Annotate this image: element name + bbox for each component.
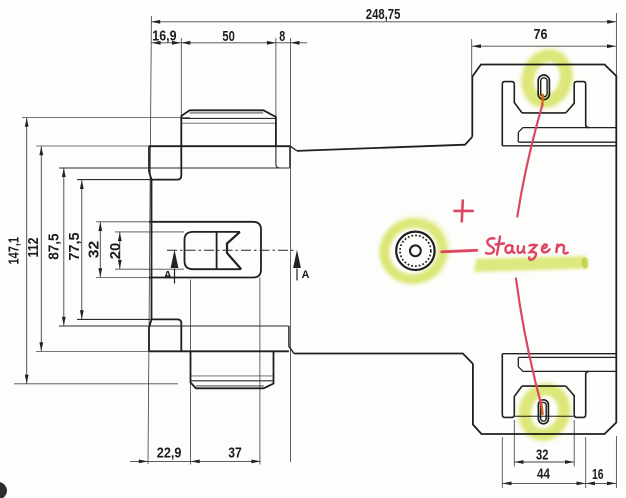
left ear right wall + chamfer	[514, 84, 522, 113]
chevron spring tip	[227, 232, 241, 269]
dimension 32 left line	[99, 222, 101, 278]
arrows 50	[181, 41, 190, 45]
deep line A	[519, 141, 617, 143]
left ear right wall + chamfer bottom	[514, 386, 522, 415]
step chamfer top at x=290	[291, 146, 298, 151]
orange pen tip top slot	[541, 95, 544, 105]
dimension 87,5 line	[63, 168, 65, 326]
chamfer to right ear bottom	[566, 386, 574, 415]
bottom crown thin line 1	[196, 385, 264, 387]
orange pen tip bottom slot	[541, 400, 543, 414]
bottom oval slot	[538, 400, 548, 424]
right ear bottom arc	[574, 415, 586, 418]
pocket left wall bottom	[501, 354, 503, 415]
arrows 16,9 inside	[152, 41, 161, 45]
svg-text:76: 76	[534, 27, 548, 43]
svg-text:32: 32	[536, 447, 548, 463]
extension line 20 bottom	[115, 268, 184, 270]
extension line 20 top	[115, 231, 184, 233]
arrows 37	[191, 460, 200, 464]
internal lines group	[59, 113, 290, 386]
extension line 32 top	[96, 221, 149, 223]
tab right fillet to 87,5 line	[276, 146, 280, 168]
crown line 3	[181, 122, 276, 124]
extension line 32 bottom	[96, 277, 149, 279]
arrows 248,75	[151, 20, 160, 24]
right ear top	[574, 82, 586, 85]
arrows 32 bottom	[515, 460, 524, 464]
bottom pocket cutout	[502, 354, 616, 418]
highlighter ring middle	[371, 208, 458, 293]
87,5 feature bottom line	[59, 325, 289, 327]
deep line bottom A	[519, 356, 617, 358]
deep line B	[502, 145, 616, 147]
highlighter blob right end	[582, 257, 589, 269]
deep line bottom B	[502, 353, 616, 355]
step upper	[152, 146, 182, 180]
step line	[518, 128, 616, 133]
highlighter bar under Stanzen	[474, 256, 589, 272]
left edge with step chamfers	[149, 146, 152, 352]
extension line 147,1 top	[22, 117, 190, 119]
red line top slot to word	[517, 105, 542, 217]
block right edge lower + step chamfer	[289, 326, 294, 354]
extension line pocket inner left x=514.3	[513, 420, 515, 467]
arrows 112	[39, 146, 43, 155]
arrows 32 left	[98, 222, 102, 231]
red line word to bottom slot	[516, 279, 541, 404]
right top block outline	[472, 65, 616, 435]
dimension 76 line	[472, 45, 617, 47]
arrow 22,9 outside left	[139, 460, 148, 464]
punch circle feature	[396, 232, 434, 270]
svg-text:87,5: 87,5	[47, 233, 63, 259]
red pen group	[442, 105, 568, 404]
bottom crown line 3	[191, 375, 274, 377]
dimension 147,1 line	[26, 118, 28, 384]
extension line bottom tab right x=260.6	[259, 278, 261, 465]
extension line block-right x=290.5	[290, 38, 292, 462]
extension line bottom tab left x=190.5	[190, 280, 192, 465]
dimension 44 line	[502, 482, 585, 484]
arrows 20 left	[118, 232, 122, 241]
main body bottom edge right portion	[294, 354, 473, 364]
left ear top	[502, 82, 514, 85]
77,5 ext-part line lower	[77, 318, 152, 320]
dimension 16,9 / 50 / 8 line	[152, 42, 308, 44]
svg-text:77,5: 77,5	[67, 232, 83, 260]
77,5 ext-part line upper	[77, 179, 152, 181]
scan smudge bottom left	[0, 482, 7, 498]
extension line pocket outer right x=585.7	[585, 437, 587, 488]
channel floor	[522, 112, 566, 114]
extension line pocket inner right x=574.2	[573, 420, 575, 467]
svg-text:44: 44	[537, 466, 550, 482]
svg-text:20: 20	[108, 243, 124, 260]
top oval slot	[538, 75, 549, 100]
highlighter ring bottom	[514, 379, 576, 446]
step vertical bottom	[517, 357, 519, 366]
dimension 20 left line	[119, 232, 121, 269]
extension line tab-right x=275.9	[275, 38, 277, 117]
left block top edge	[149, 145, 291, 147]
red dash from circle	[442, 250, 477, 252]
svg-text:50: 50	[222, 29, 234, 45]
87,5 feature top line	[59, 167, 289, 169]
handwritten word Stanzen	[486, 237, 568, 260]
main body top edge right portion	[297, 137, 472, 151]
center line dash-dot	[167, 249, 297, 251]
inner slot with chevron	[185, 232, 242, 269]
top pocket cutout	[502, 82, 616, 146]
arrows 16	[586, 482, 595, 486]
dimension 248,75 line	[151, 21, 616, 23]
svg-text:22,9: 22,9	[157, 446, 182, 462]
crown line 2	[181, 117, 276, 119]
extension line 147,1 bottom	[14, 383, 178, 385]
red plus sign	[455, 201, 473, 222]
inner slot outline	[185, 232, 242, 269]
step lower	[152, 319, 182, 351]
arrows 87,5	[62, 168, 66, 177]
svg-text:147,1: 147,1	[7, 237, 23, 265]
section arrow A right	[293, 250, 309, 281]
bottom tab outline	[191, 351, 274, 388]
left block bottom edge	[149, 350, 289, 352]
arrow 8 outside right	[291, 41, 300, 45]
arrows 147,1	[25, 118, 29, 127]
arrows 77,5	[80, 180, 84, 189]
channel ceiling	[522, 385, 566, 387]
dimension 112 line	[40, 146, 42, 352]
bottom crown line 2	[191, 380, 274, 382]
slot outer shape	[149, 222, 261, 278]
arrows 44	[503, 482, 512, 486]
svg-text:248,75: 248,75	[366, 7, 401, 23]
extension line tab-left x=181.3	[180, 38, 182, 116]
dimension 32 bottom line	[514, 461, 574, 463]
svg-text:32: 32	[87, 241, 103, 259]
svg-text:112: 112	[26, 238, 42, 258]
step vertical	[517, 132, 519, 142]
svg-text:37: 37	[228, 446, 242, 462]
chamfer to right ear	[566, 84, 574, 113]
extension line pocket outer left x=502.3	[501, 437, 503, 488]
svg-text:16,9: 16,9	[152, 29, 176, 45]
arrows 76	[472, 44, 481, 48]
dimension 16 line	[586, 482, 617, 484]
extension line right edge top x=616.4	[615, 13, 617, 76]
highlighter ring top	[516, 44, 579, 113]
dimension 77,5 line	[81, 180, 83, 320]
svg-text:A: A	[302, 269, 310, 281]
extension line left edge vertical x=147.8	[148, 16, 151, 464]
left ear bottom	[502, 415, 514, 418]
pocket left wall	[501, 84, 503, 146]
svg-text:A: A	[164, 269, 172, 281]
svg-text:8: 8	[279, 29, 285, 45]
dimension 22,9 / 37 line	[130, 460, 261, 462]
extension line right block left x=471.7	[471, 39, 473, 77]
right ear right wall	[586, 84, 589, 127]
top tab outline	[181, 110, 276, 146]
bridge line bottom	[514, 415, 574, 417]
extension line 112 bottom	[36, 351, 149, 353]
part outline group	[149, 65, 616, 435]
right ear right wall bottom	[586, 371, 589, 414]
step line bottom	[518, 367, 616, 372]
spring anchor vertical	[216, 232, 218, 269]
extension line 112 top	[36, 145, 149, 147]
extension line right edge bottom x=616.4	[615, 436, 617, 488]
section arrow A left	[164, 250, 179, 284]
crown thin line 1	[190, 112, 264, 114]
block right edge upper	[289, 146, 291, 168]
svg-text:16: 16	[592, 467, 604, 483]
